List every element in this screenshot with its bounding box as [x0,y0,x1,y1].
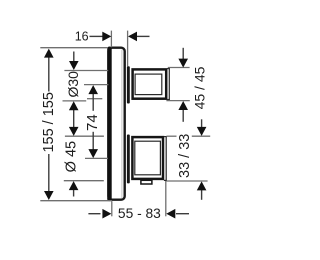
svg-text:55 - 83: 55 - 83 [118,206,161,221]
svg-text:45 / 45: 45 / 45 [191,66,207,109]
svg-text:16: 16 [75,30,89,44]
svg-text:74: 74 [84,114,101,131]
svg-text:155 / 155: 155 / 155 [41,92,57,152]
svg-text:33 / 33: 33 / 33 [177,134,193,178]
svg-text:Ø 45: Ø 45 [64,141,80,172]
svg-text:Ø30: Ø30 [65,71,81,98]
